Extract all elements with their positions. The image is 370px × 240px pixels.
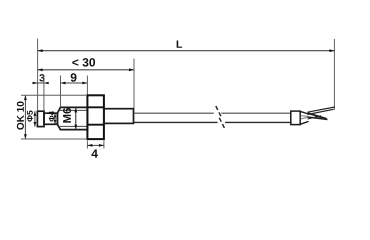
label < 30 (72, 58, 95, 67)
M6 dimension (75, 108, 77, 130)
cable break mark bottom (219, 118, 225, 129)
extension line 3 right (x=44.9) (43, 76, 45, 111)
label 3 (39, 74, 44, 81)
label L (177, 40, 182, 47)
extension line hex 4-right (103, 141, 105, 149)
cable break gap masks (214, 112, 222, 115)
label 9 (71, 73, 77, 82)
extension line left (tip left edge, x=38.5) (37, 39, 39, 111)
thread section M6 (57, 107, 87, 129)
wire strand in taper A (301, 115, 309, 118)
hex flat line top (87, 106, 104, 108)
thread minor line top (60, 109, 88, 111)
label OK 10 (17, 102, 24, 130)
ferrule taper top (300, 111, 308, 114)
phi4 dimension (54, 113, 56, 124)
wire 4 (308, 117, 328, 120)
probe tip (37, 111, 44, 126)
wire 2 (308, 109, 334, 114)
dimension L (38, 50, 335, 52)
thread minor line bottom (60, 125, 88, 127)
dimension 9 (61, 82, 88, 84)
label phi4 (49, 111, 54, 121)
wire 3 (308, 113, 327, 119)
label 4 (91, 149, 97, 157)
ferrule taper bottom (300, 121, 308, 124)
label phi5 (27, 111, 33, 122)
neck (44, 113, 57, 124)
ferrule body (291, 111, 300, 125)
dimension 3 (outside arrows) (32, 82, 48, 84)
dimension 4 (87, 144, 104, 146)
hex flat line bottom (87, 124, 104, 126)
extension line hex top-left (21, 94, 86, 96)
extension line hex 4-left (86, 141, 88, 149)
cable break mark top (216, 106, 222, 117)
phi5 dimension (34, 111, 36, 126)
hex body (87, 95, 104, 139)
label M6 (63, 108, 71, 123)
extension line sleeve right (x=134) (133, 59, 135, 109)
dimension < 30 (38, 69, 134, 71)
cable top line (134, 112, 291, 114)
sleeve (104, 109, 134, 124)
wire 1 (308, 107, 335, 112)
wire 5 (308, 116, 322, 119)
extension line 9 left (x=60.8) (60, 76, 62, 107)
extension line L right (x=335) (333, 39, 335, 110)
cable bottom line (134, 121, 291, 123)
extension line 9 right (x=87.4) (86, 76, 88, 95)
extension line hex bottom-left (21, 138, 86, 140)
dimension OK 10 vertical (24, 95, 26, 139)
wire strand in taper B (301, 117, 309, 119)
